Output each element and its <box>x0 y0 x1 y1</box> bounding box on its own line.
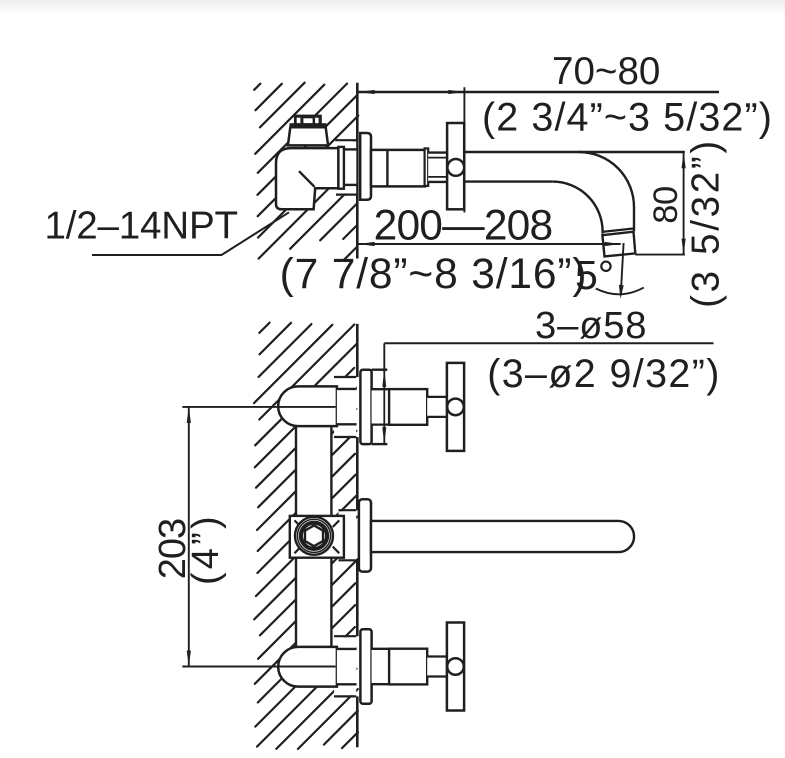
elbow cap thick base band <box>290 123 327 128</box>
spout nozzle joint line <box>602 229 633 232</box>
extension line at handle end <box>463 87 465 212</box>
bottom valve stem <box>427 657 447 677</box>
tee chamfer BR <box>333 547 340 554</box>
handle hub <box>447 159 464 176</box>
escutcheon flange (side view) <box>360 133 371 200</box>
elbow outlet ring <box>338 147 344 189</box>
svg-text:(7 7/8”~8 3/16”): (7 7/8”~8 3/16”) <box>280 251 588 298</box>
bottom supply elbow (front) <box>278 647 337 687</box>
wall hole (bottom valve) <box>334 637 356 695</box>
dim 80 vertical line <box>683 152 685 255</box>
dim 203 vertical line <box>188 407 190 667</box>
supply pipe through wall <box>344 151 356 184</box>
bottom valve handle hub <box>447 658 464 675</box>
wall elbow body (1/2-14NPT inlet) <box>276 148 338 209</box>
dim 70~80 line <box>357 91 719 93</box>
5 degree arc <box>596 288 644 295</box>
bottom valve neck <box>372 650 390 683</box>
svg-text:(2 3/4”~3 5/32”): (2 3/4”~3 5/32”) <box>482 95 773 139</box>
top supply elbow (front) <box>278 386 337 426</box>
cross handle bar (side view) <box>447 123 464 209</box>
dim 3-ø58 leader <box>384 342 713 344</box>
spout nozzle <box>602 232 635 257</box>
svg-text:(3 5/32”): (3 5/32”) <box>685 138 728 308</box>
spout top line + extension to 80 dim <box>464 151 684 153</box>
wall surface line (upper view) <box>356 83 359 259</box>
svg-text:1/2–14NPT: 1/2–14NPT <box>45 205 238 248</box>
bottom valve cross handle bar <box>447 623 464 711</box>
top valve cross handle bar <box>447 363 464 451</box>
elbow bonnet <box>288 127 328 145</box>
svg-text:(4”): (4”) <box>185 513 227 585</box>
svg-text:3–ø58: 3–ø58 <box>535 304 647 347</box>
svg-text:80: 80 <box>647 186 685 223</box>
top valve stem <box>427 397 447 417</box>
elbow inner bore line <box>299 171 315 187</box>
concealed riser tube <box>296 426 331 647</box>
extension from nozzle bottom <box>635 254 685 256</box>
tee nut outer circle <box>295 517 333 555</box>
tee chamfer TL <box>295 520 302 527</box>
top valve valve body <box>389 389 427 425</box>
top valve neck <box>372 390 390 423</box>
wall hatching (upper section view) <box>254 83 358 261</box>
dim 200-208 line <box>357 243 620 245</box>
tee nut thick ring <box>301 523 327 549</box>
water flow direction line <box>621 243 624 296</box>
spout tube (front) <box>371 521 634 552</box>
tee chamfer BL <box>295 547 302 554</box>
wall hole (spout) <box>339 511 357 559</box>
top valve escutcheon flange <box>360 370 371 444</box>
spout escutcheon flange <box>359 499 371 571</box>
valve cap ring <box>425 148 429 186</box>
bottom valve escutcheon flange <box>360 629 371 703</box>
wall hole for supply (upper view) <box>335 141 357 193</box>
wall hatching (lower front view) <box>254 323 358 749</box>
svg-text:5°: 5° <box>575 252 614 298</box>
svg-text:70~80: 70~80 <box>552 50 660 93</box>
elbow ribbed top cap <box>294 115 322 124</box>
label 1/2-14NPT leader <box>92 212 289 255</box>
top valve handle hub <box>447 399 464 416</box>
tee hex bolt <box>305 525 323 546</box>
wall hole (top valve) <box>334 378 356 436</box>
bottom valve valve body <box>389 649 427 685</box>
wall surface line (lower view), broken at holes <box>356 324 359 377</box>
spout tee body <box>290 516 344 558</box>
valve stem <box>428 153 447 182</box>
top valve axis extension line <box>182 406 335 408</box>
svg-text:200—208: 200—208 <box>374 202 553 249</box>
spout outer curve <box>579 152 634 231</box>
bottom valve axis extension line <box>182 666 335 668</box>
spout bottom line <box>464 180 552 182</box>
tee chamfer TR <box>333 520 340 527</box>
valve body step line <box>386 150 388 187</box>
spout inner curve <box>553 182 603 234</box>
ø58 dimension line across escutcheon <box>383 370 385 444</box>
top through-pipe <box>337 390 357 423</box>
svg-text:(3–ø2 9/32”): (3–ø2 9/32”) <box>487 352 721 396</box>
valve body (side view) <box>371 150 425 187</box>
bottom through-pipe <box>337 650 357 683</box>
